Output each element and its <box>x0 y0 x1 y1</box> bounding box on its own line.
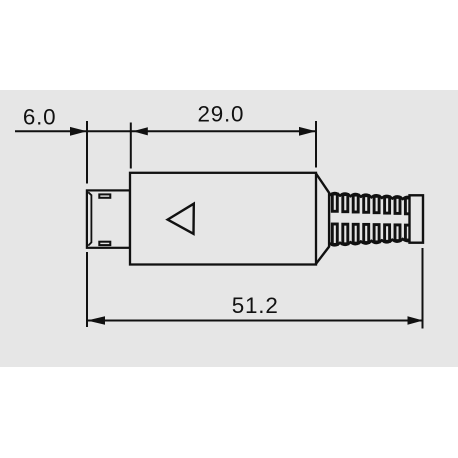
dimension label 6.0 <box>23 104 57 129</box>
connector tip outline <box>87 190 130 247</box>
bottom dimension line 51.2 <box>87 320 423 322</box>
strain relief bottom envelope <box>329 238 413 246</box>
extension line B (tip/body joint) <box>130 123 132 169</box>
svg-text:51.2: 51.2 <box>232 293 279 318</box>
tip bottom slot <box>99 242 110 245</box>
extension line D (overall right) <box>422 248 424 329</box>
connector body <box>130 173 316 265</box>
arrowhead bottom left (pointing left) <box>87 316 105 325</box>
svg-text:6.0: 6.0 <box>23 104 57 129</box>
strain relief upper fin slots <box>332 194 410 214</box>
cable end cap <box>410 195 424 242</box>
arrowhead at 29.0 right end (pointing right) <box>299 127 316 136</box>
arrowhead bottom right (pointing right) <box>408 316 424 324</box>
gray image background panel <box>0 90 458 367</box>
extension line A (left overall) <box>86 121 88 327</box>
orientation triangle <box>168 204 194 234</box>
arrowhead at 6.0 left extension (pointing right) <box>70 127 87 136</box>
svg-text:29.0: 29.0 <box>198 102 245 127</box>
tip inner bevel <box>88 192 91 245</box>
tip top slot <box>99 194 110 197</box>
dimension label 29.0 <box>198 102 245 127</box>
extension line C (body right) <box>315 121 317 168</box>
strain relief lower fin slots <box>332 224 410 244</box>
taper to strain relief <box>316 174 329 264</box>
top dimension line <box>15 130 316 132</box>
dimension label 51.2 <box>232 293 279 318</box>
strain relief top envelope <box>329 193 413 200</box>
arrowhead at 29.0 left end (pointing left) <box>133 127 148 135</box>
